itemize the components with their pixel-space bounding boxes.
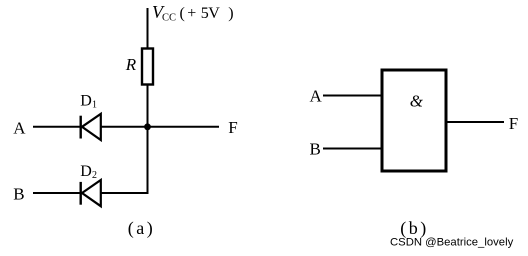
svg-text:F: F <box>228 118 237 137</box>
node B label <box>13 185 24 204</box>
svg-text:B: B <box>13 185 24 204</box>
node A label <box>13 118 26 137</box>
svg-text:D: D <box>80 93 92 110</box>
node A label (gate) <box>310 87 323 106</box>
wire resistor bottom to B-branch corner <box>147 85 149 195</box>
svg-text:D: D <box>80 163 92 180</box>
AND gate function label & <box>410 92 424 111</box>
wire input B to gate pin 2 <box>323 148 382 150</box>
wire input A to diode D1 <box>33 126 80 128</box>
diode D2 label <box>80 163 97 181</box>
wire diode D2 to vertical branch <box>101 192 149 194</box>
svg-text:CC: CC <box>162 12 176 23</box>
wire input B to diode D2 <box>33 192 80 194</box>
caption (b) <box>400 218 429 239</box>
svg-text:CSDN @Beatrice_lovely: CSDN @Beatrice_lovely <box>390 236 514 248</box>
resistor R <box>142 49 153 85</box>
svg-text:(a): (a) <box>128 218 155 239</box>
watermark CSDN <box>390 236 514 248</box>
node F label (gate) <box>509 114 518 133</box>
node F label (circuit a) <box>228 118 237 137</box>
svg-text:B: B <box>310 140 321 159</box>
svg-text:(+5V): (+5V) <box>180 5 234 22</box>
svg-text:R: R <box>125 55 137 74</box>
svg-text:A: A <box>13 118 26 137</box>
svg-text:&: & <box>410 92 424 111</box>
resistor R value label <box>125 55 137 74</box>
diode D1 label <box>80 93 97 111</box>
svg-text:A: A <box>310 87 323 106</box>
wire diode D1 to output F <box>101 126 219 128</box>
diode D1 <box>81 114 101 140</box>
wire gate output to F <box>446 121 504 123</box>
svg-text:F: F <box>509 114 518 133</box>
op-amp U1 AND gate body <box>382 70 446 171</box>
node B label (gate) <box>310 140 321 159</box>
wire input A to gate pin 1 <box>323 95 382 97</box>
diode D2 <box>81 180 101 206</box>
node Vcc label <box>152 2 234 23</box>
node junction dot <box>144 123 151 130</box>
svg-text:1: 1 <box>92 100 97 111</box>
svg-text:2: 2 <box>92 170 97 181</box>
wire Vcc to resistor top <box>147 8 149 49</box>
caption (a) <box>128 218 155 239</box>
